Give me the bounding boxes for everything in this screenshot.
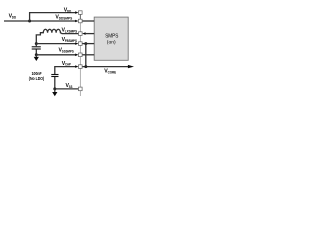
wire VDDSMPS pin to SMPS block bbox=[82, 20, 94, 22]
node VSS junction bbox=[53, 87, 56, 90]
svg-text:SS: SS bbox=[69, 85, 73, 89]
svg-text:(No LDO): (No LDO) bbox=[29, 76, 45, 81]
wire VCAP pin to VCORE rail bbox=[82, 66, 128, 68]
node SS left junction bbox=[35, 53, 38, 56]
capacitor C1 stems bbox=[35, 44, 37, 47]
svg-text:DD: DD bbox=[12, 16, 17, 20]
svg-text:FBSMPS: FBSMPS bbox=[65, 39, 77, 43]
node VFB to VCORE junction bbox=[84, 42, 87, 45]
pin VDDSMPS bbox=[79, 19, 83, 23]
pin VSSSMPS bbox=[79, 53, 83, 57]
wire VCORE drop bbox=[85, 44, 87, 67]
wire VSSSMPS bbox=[36, 54, 75, 56]
capacitor C1 plates bbox=[32, 46, 41, 48]
arrow into VDD pin bbox=[75, 11, 78, 14]
arrow into VSSSMPS pin bbox=[75, 54, 78, 57]
wire VCAP bbox=[55, 67, 76, 75]
pin VSS bbox=[79, 87, 83, 91]
SMPS block U1 bbox=[94, 17, 128, 60]
wire VDD step to VDD pin bbox=[30, 13, 76, 21]
arrow into VCAP pin bbox=[75, 65, 78, 68]
wire VSS bbox=[55, 88, 79, 90]
svg-text:DD: DD bbox=[67, 9, 72, 13]
pin VLXSMPS bbox=[79, 32, 83, 36]
node junction VDD bbox=[28, 20, 31, 23]
background bbox=[0, 0, 150, 107]
svg-text:SSSMPS: SSSMPS bbox=[62, 50, 74, 54]
arrow out of VLXSMPS pin bbox=[82, 32, 85, 35]
svg-text:DDSMPS: DDSMPS bbox=[59, 16, 72, 20]
pin VFBSMPS bbox=[79, 42, 83, 46]
wire VFBSMPS bbox=[36, 43, 75, 45]
svg-text:CAP: CAP bbox=[65, 63, 72, 67]
arrow into VFBSMPS pin bbox=[75, 42, 78, 45]
arrow into VDDSMPS pin bbox=[75, 20, 78, 23]
capacitor C2 bottom stem bbox=[54, 77, 56, 89]
wire VDD rail bbox=[4, 20, 76, 22]
pin VCAP bbox=[79, 65, 83, 69]
wire VSSSMPS pin to SMPS block bbox=[82, 54, 94, 56]
pin VDD bbox=[79, 11, 83, 15]
wire VFBSMPS pin to SMPS block bbox=[82, 43, 94, 45]
svg-text:LXSMPS: LXSMPS bbox=[65, 29, 77, 33]
node FB left junction bbox=[35, 42, 38, 45]
ground arrow 1 bbox=[35, 55, 37, 58]
wire VDD pin to VDDSMPS pin bbox=[79, 14, 81, 19]
svg-text:(on): (on) bbox=[107, 39, 116, 44]
capacitor C2 (100nF) plates bbox=[51, 74, 58, 76]
node VCORE junction bbox=[84, 65, 87, 68]
ground arrow 2 bbox=[54, 89, 56, 93]
chip edge (pin column line) bbox=[79, 11, 81, 96]
wire VLXSMPS pin to SMPS block bbox=[86, 33, 95, 35]
svg-text:CORE: CORE bbox=[108, 70, 117, 74]
arrow VCORE bbox=[128, 65, 134, 68]
inductor L1 bbox=[36, 29, 78, 43]
